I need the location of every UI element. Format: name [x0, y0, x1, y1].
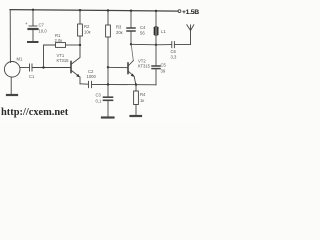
inductor L1 — [155, 11, 157, 27]
svg-text:3,3: 3,3 — [171, 55, 177, 60]
node rail-L1 — [155, 10, 157, 12]
svg-text:0,1: 0,1 — [96, 99, 102, 104]
svg-text:C1: C1 — [29, 74, 35, 79]
capacitor 1000 — [88, 81, 90, 87]
svg-text:C6: C6 — [171, 49, 177, 54]
resistor R3 — [107, 11, 109, 26]
svg-text:C7: C7 — [39, 23, 45, 28]
wire C1 to VT1 base — [33, 67, 71, 69]
svg-text:1000: 1000 — [87, 74, 97, 79]
svg-text:39: 39 — [161, 69, 166, 74]
svg-text:10,0: 10,0 — [39, 29, 48, 34]
resistor R2 — [79, 10, 81, 24]
wire mic to C1 — [20, 67, 29, 69]
svg-text:C3: C3 — [96, 93, 102, 98]
wire collector node to L1 node — [131, 43, 156, 46]
svg-text:C4: C4 — [140, 25, 146, 30]
wire mic bottom — [10, 77, 12, 94]
wire top rail — [10, 10, 178, 12]
node rail-C4 — [130, 10, 132, 12]
wire VT1 emitter bottom — [80, 83, 88, 85]
svg-text:20к: 20к — [116, 30, 123, 35]
resistor R1 — [56, 43, 66, 48]
node rail-R2 — [79, 9, 81, 11]
svg-text:M1: M1 — [17, 57, 23, 62]
svg-text:+: + — [25, 21, 28, 26]
node emitter-R4 — [135, 83, 137, 85]
node rail-C2 — [32, 9, 34, 11]
svg-text:56: 56 — [140, 31, 145, 36]
ground (under C2) — [28, 41, 38, 43]
wire R1 feedback vertical — [44, 45, 56, 68]
svg-text:R2: R2 — [84, 24, 90, 29]
node base-R1 — [42, 66, 44, 68]
capacitor C3 — [107, 85, 109, 97]
terminal +1.5V — [178, 10, 181, 13]
capacitor C5 — [155, 45, 157, 66]
wire R3 node down — [107, 67, 109, 84]
antenna — [190, 31, 192, 45]
svg-text:L1: L1 — [161, 29, 166, 34]
wire R1 to collector node — [66, 44, 81, 46]
wire left frame vertical — [9, 10, 11, 63]
node R3-base — [107, 66, 109, 68]
microphone M1 — [4, 62, 20, 78]
svg-text:+1.5В: +1.5В — [182, 9, 199, 16]
node rail-R3 — [107, 9, 109, 11]
svg-text:C5: C5 — [161, 63, 167, 68]
resistor R4 — [135, 85, 137, 91]
ground (under mic) — [7, 94, 17, 96]
ground (under R4) — [131, 115, 142, 117]
svg-text:R4: R4 — [140, 92, 146, 97]
svg-text:КТ315: КТ315 — [57, 58, 70, 63]
capacitor C1 — [29, 64, 31, 71]
svg-text:КТ315: КТ315 — [138, 64, 151, 69]
svg-text:1к: 1к — [140, 98, 144, 103]
ground (under C3) — [102, 116, 114, 118]
capacitor C2 (electrolytic 10.0) — [32, 10, 34, 26]
svg-text:R3: R3 — [116, 25, 122, 30]
wire to emitter rail — [92, 83, 156, 85]
wire base VT2 — [108, 66, 128, 68]
capacitor C6 — [156, 44, 171, 46]
svg-text:10к: 10к — [84, 30, 91, 35]
svg-text:2,0к: 2,0к — [55, 38, 63, 43]
node C4-collector — [130, 43, 132, 45]
capacitor C4 — [130, 11, 132, 28]
node C3 — [107, 83, 109, 85]
node L1-C5 — [155, 44, 157, 46]
node R1-R2-collector — [79, 44, 81, 46]
svg-text:http://cxem.net: http://cxem.net — [1, 107, 69, 118]
